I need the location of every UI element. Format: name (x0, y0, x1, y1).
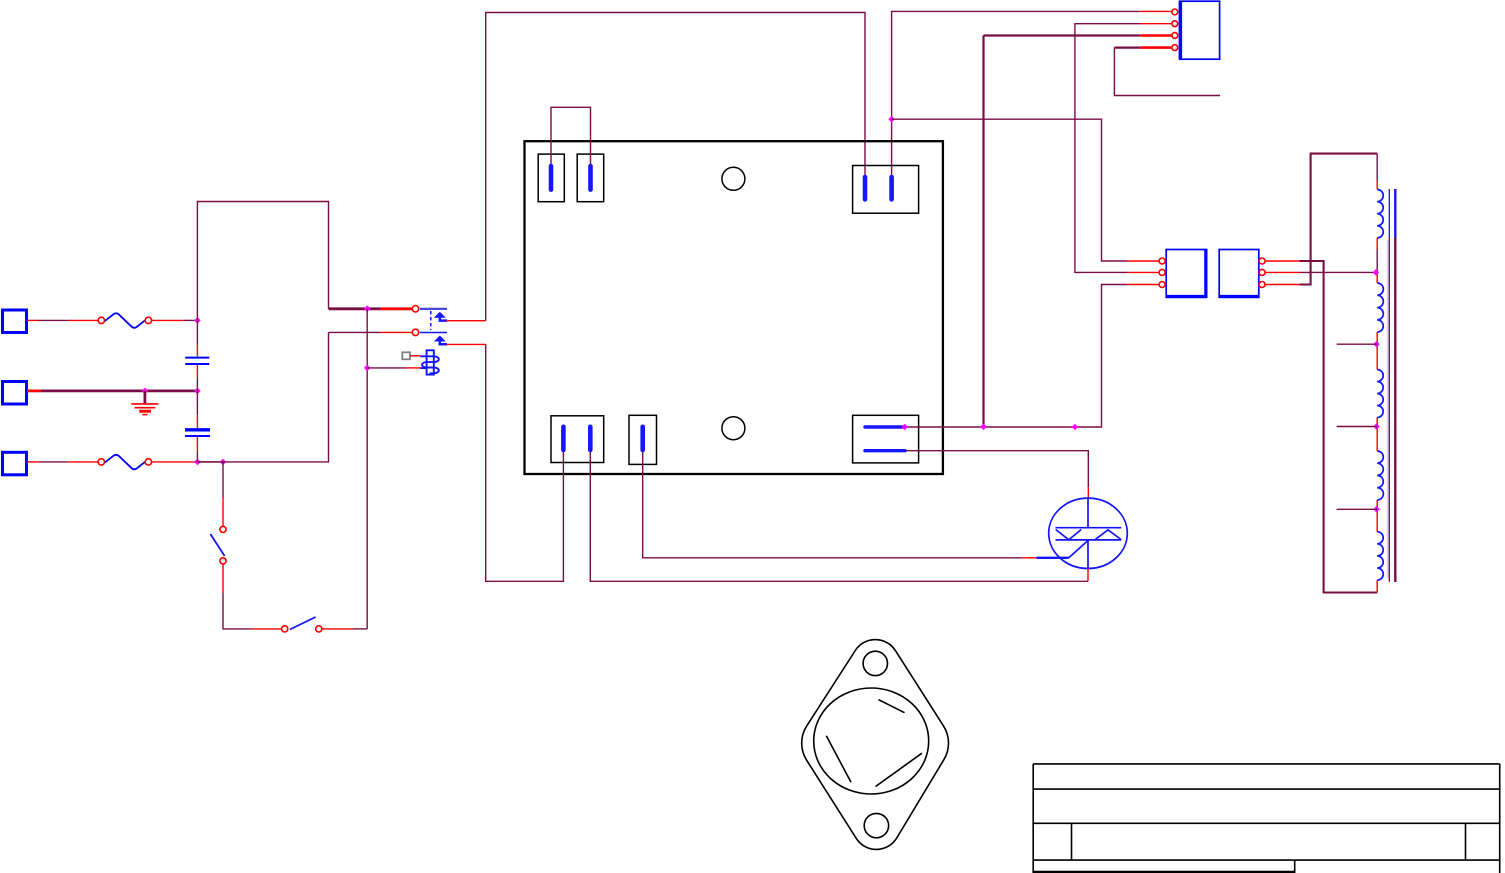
capacitor C1 (185, 358, 209, 364)
relay K1 contact 2 (412, 329, 447, 344)
hole top (722, 167, 745, 190)
junction net W1 / pin3 vertical (980, 424, 987, 431)
wire connector pin4 net (1140, 46, 1171, 49)
opto block right (1219, 250, 1265, 298)
wire connector pin3 net (thick) (984, 34, 1141, 36)
connector J2 (neutral terminal) (3, 382, 27, 405)
switch S2 (lower) (282, 617, 368, 632)
wire relay branch vertical (366, 309, 368, 629)
wire opto R pin3 to transformer top (1265, 284, 1299, 286)
wire connector pin2 net (1075, 24, 1140, 273)
junction phase A node (194, 317, 201, 324)
wire contact1 to top bus (446, 320, 486, 322)
opto block left (1159, 250, 1207, 298)
wire U-link over TL pins (551, 107, 591, 164)
junction neutral node (194, 388, 201, 395)
wire net B branch to opto block L pin1 (892, 119, 1128, 261)
TO-3 package outline (802, 640, 949, 850)
pin TL2 (588, 166, 593, 190)
wire tap stub 1 (1337, 343, 1378, 345)
switch S1 (upper) (210, 462, 281, 629)
transformer secondary faint line (1387, 240, 1389, 578)
wire net W1: BR1 right, up, to opto L pin3 (905, 285, 1128, 428)
junction coil branch (364, 365, 371, 372)
hole bottom (722, 417, 745, 440)
pin BR2 (bar) (865, 449, 905, 452)
pin BR1 (bar) (865, 425, 902, 428)
transformer T1 primary line (1376, 154, 1378, 593)
pad box TL1 (538, 154, 564, 202)
transformer core line thick (1394, 238, 1396, 582)
pin TR2 (889, 177, 894, 199)
wire triac anode bottom (1087, 568, 1089, 581)
wire fuse F1 to node (152, 319, 198, 321)
junction BR1 pin (901, 424, 908, 431)
pin BL3 (640, 427, 645, 450)
wire tap stub 3 (1337, 508, 1378, 510)
pad box BL2 (629, 415, 657, 464)
center block U1 (power module) (525, 141, 943, 474)
junction relay feed node (364, 306, 371, 313)
fuse F1 (98, 313, 151, 327)
wire J1 to fuse F1 (27, 319, 98, 321)
wire net W2: BR2 right and down to triac (906, 451, 1088, 488)
pad box TR (853, 166, 919, 214)
pin BL2 (588, 427, 593, 450)
junction net W1 mid (1072, 424, 1079, 431)
wire contact 1 feed (thick) (329, 307, 381, 310)
pad box BL1 (551, 416, 604, 463)
pin TR1 (863, 177, 868, 199)
wire tap stub 2 (1337, 426, 1378, 428)
pad box BR (853, 415, 919, 463)
junction tap 2 (1373, 423, 1380, 430)
wire contact 2 feed (329, 331, 381, 333)
junction tap 3 (1373, 506, 1380, 513)
wire triac gate (1037, 557, 1069, 559)
wire net A: contact1 - top bus - block pin TR1 (486, 13, 865, 321)
wire vertical feed with caps (196, 320, 198, 462)
transformer core line thin (1388, 238, 1390, 582)
wire contact2 out (446, 343, 486, 345)
wire neutral (thick) (27, 389, 197, 392)
connector J1 (line terminal) (3, 310, 27, 333)
wire fuse F2 to node (152, 461, 223, 463)
connector X1 (top right) (1172, 1, 1220, 59)
wire opto R pin2 to transformer tap (1265, 271, 1299, 273)
ground symbol (131, 404, 158, 415)
fuse F2 (98, 455, 151, 469)
transformer T1 winding 2 (1377, 283, 1383, 332)
junction switch tap (220, 459, 227, 466)
wire coil feed (367, 367, 406, 369)
transformer T1 winding 3 (1377, 370, 1383, 418)
junction phase B node (194, 459, 201, 466)
wire ground stub (143, 391, 146, 403)
title block (1033, 764, 1500, 873)
gray pad (coil control input) (402, 352, 410, 359)
wire loop rectangle (filter box) (197, 202, 328, 462)
connector J3 (line terminal) (3, 452, 27, 475)
transformer T1 winding 1 (1377, 190, 1383, 238)
wire J3 to fuse F2 (27, 461, 98, 463)
relay K1 coil (420, 350, 439, 374)
transformer T1 winding 5 (1377, 532, 1383, 581)
wire opto R pin1 to transformer bottom (1265, 260, 1299, 262)
pad box TL2 (577, 154, 604, 202)
wire pad to coil (410, 355, 421, 357)
transformer T1 winding 4 (1377, 451, 1383, 500)
triac Q1 (1049, 498, 1128, 568)
relay K1 contact 1 (412, 306, 447, 330)
junction net B branch (888, 116, 895, 123)
capacitor C2 (185, 430, 210, 436)
pin BL1 (561, 427, 566, 450)
junction tap pin2R (1373, 269, 1380, 276)
wire net B: block pin TR2 up and to connector pin1 (892, 11, 1140, 177)
wire contact2 down to BL1 (486, 344, 564, 581)
junction tap 1 (1373, 341, 1380, 348)
pin TL1 (549, 166, 554, 190)
junction ground tap (142, 388, 149, 395)
